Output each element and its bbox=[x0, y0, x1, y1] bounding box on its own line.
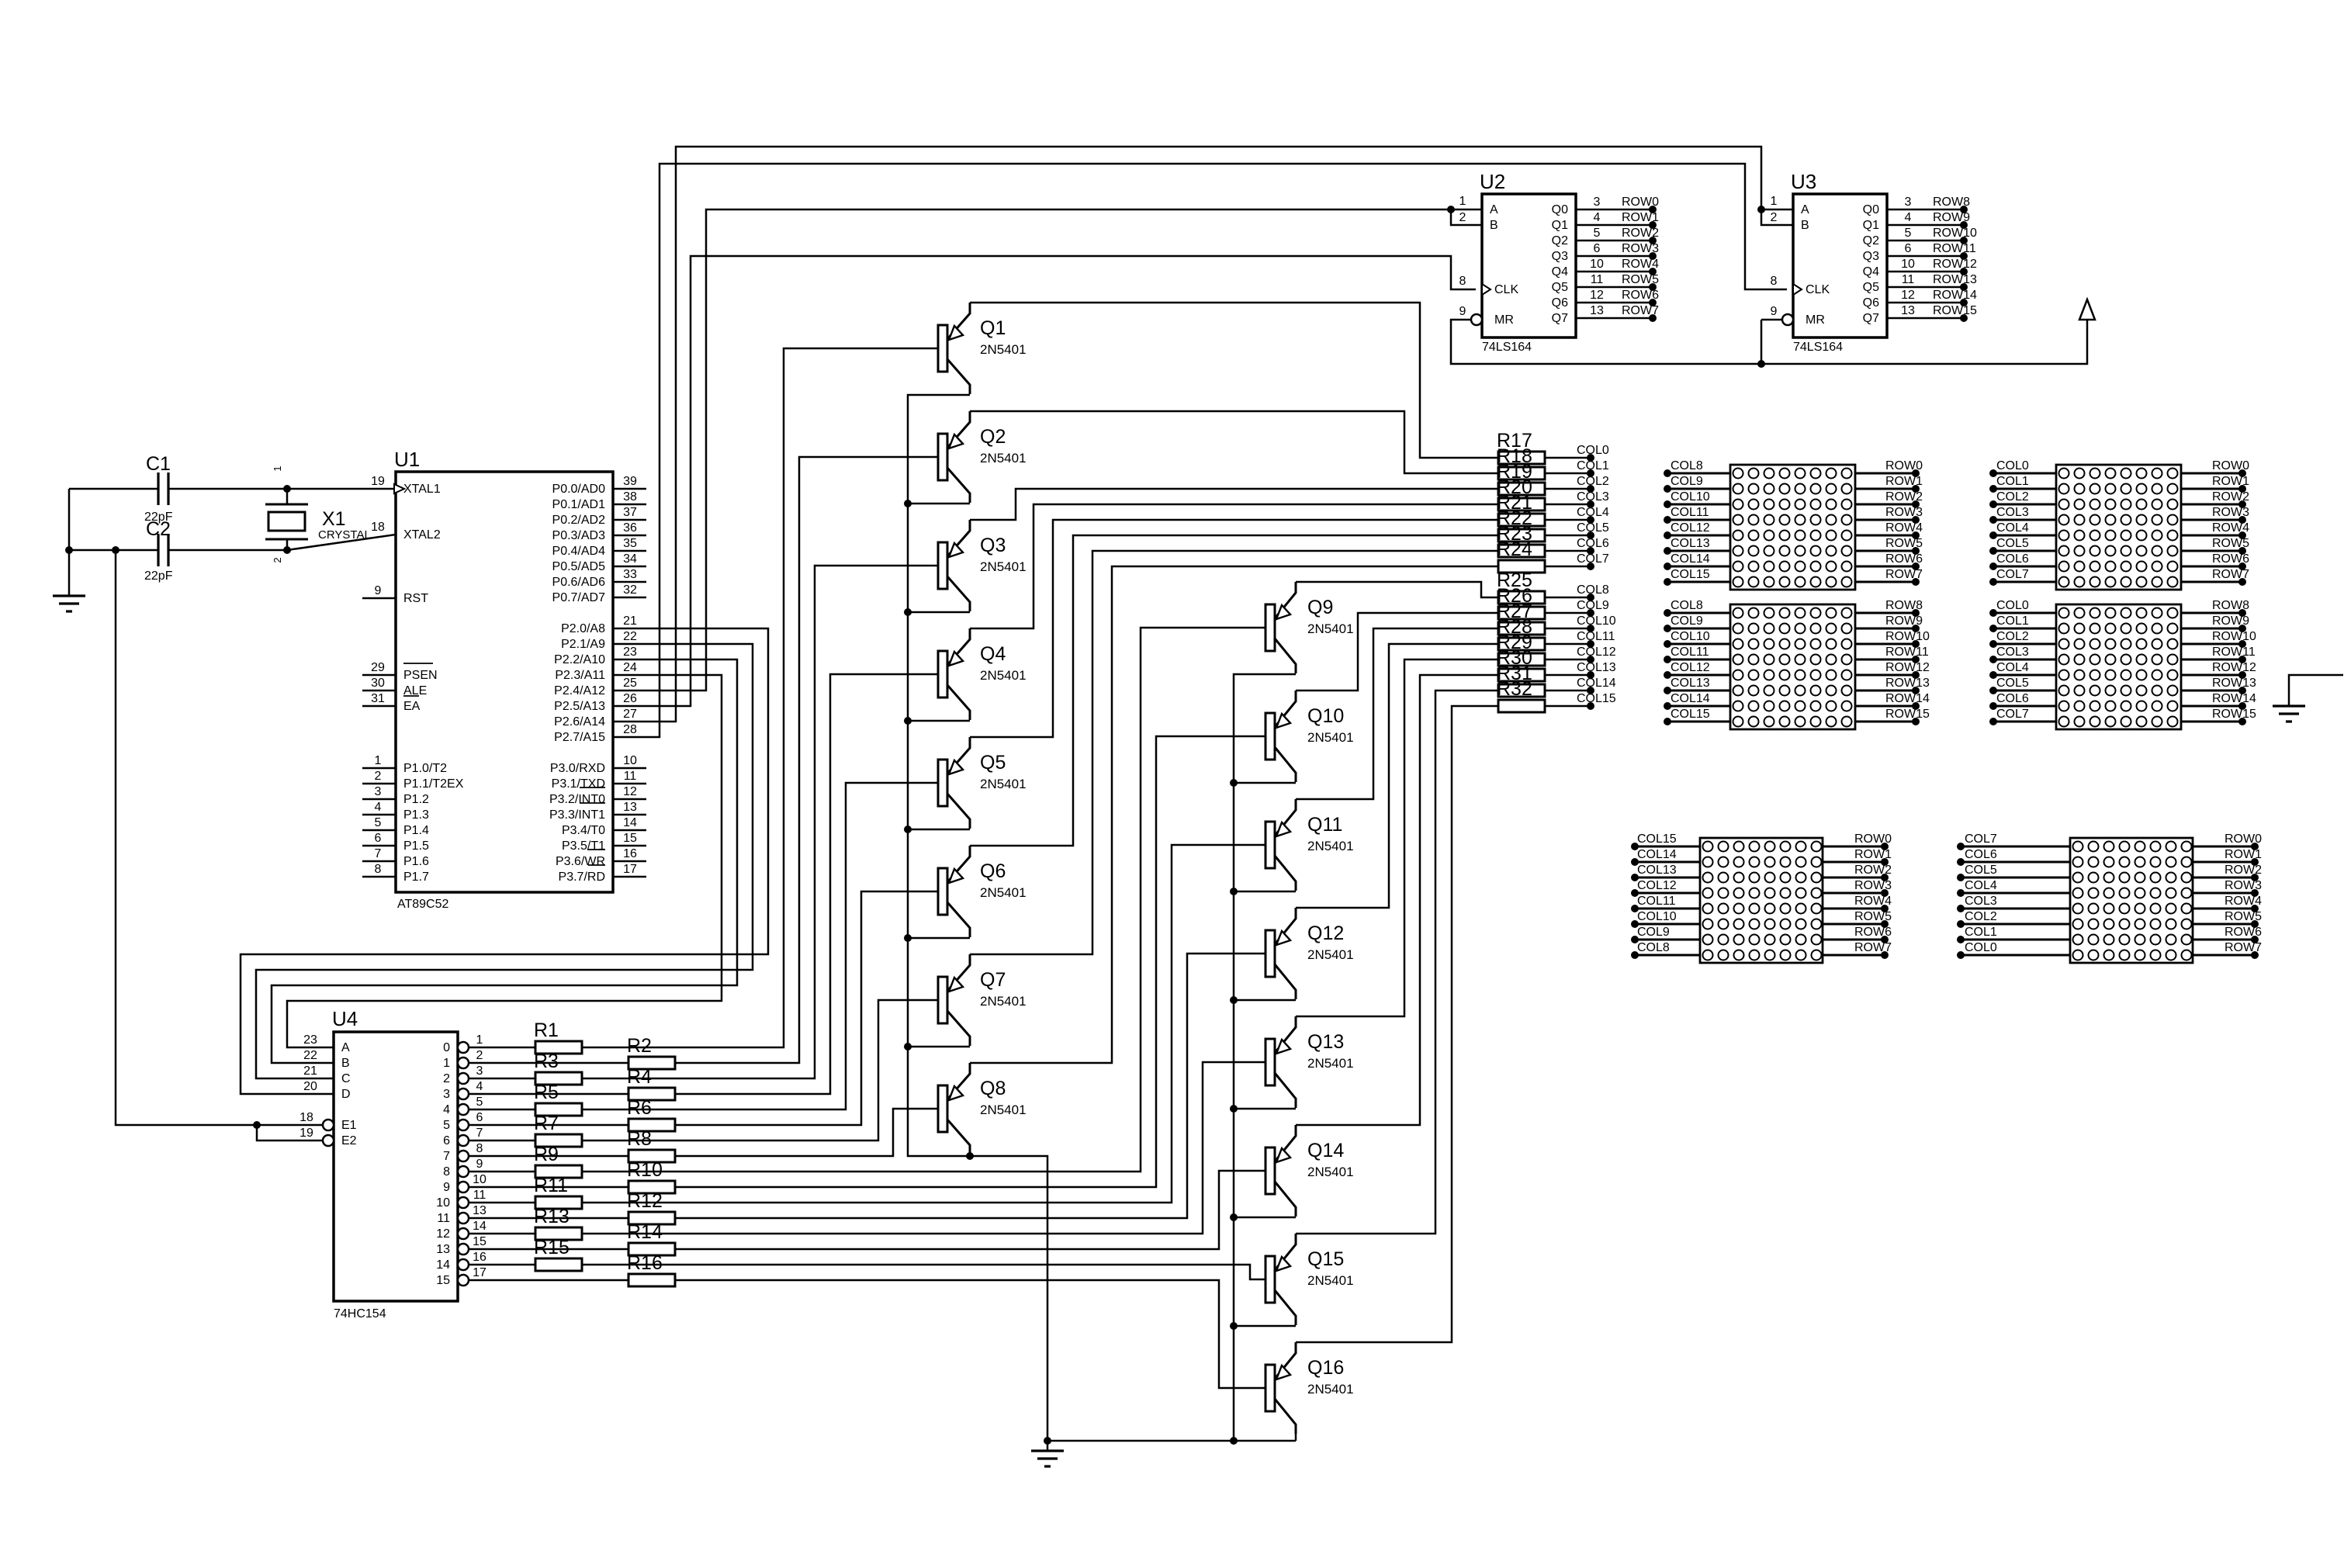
node COL0 (DZ4) bbox=[1993, 612, 2056, 614]
svg-text:U2: U2 bbox=[1480, 170, 1505, 193]
svg-text:9: 9 bbox=[375, 584, 382, 597]
transistor Q7 bbox=[938, 977, 947, 1023]
svg-text:P1.4: P1.4 bbox=[403, 824, 429, 837]
svg-text:12: 12 bbox=[436, 1227, 450, 1241]
node COL7 (DZ6) bbox=[1961, 846, 2070, 848]
wire R8 to Q8 base bbox=[675, 1109, 938, 1156]
wire R3 to Q3 base bbox=[582, 566, 938, 1078]
node ROW4 (DZ6) bbox=[2193, 908, 2255, 910]
svg-text:ROW14: ROW14 bbox=[1933, 289, 1977, 302]
svg-text:ROW13: ROW13 bbox=[1933, 273, 1977, 286]
svg-text:R13: R13 bbox=[534, 1206, 570, 1227]
svg-text:11: 11 bbox=[473, 1189, 486, 1202]
svg-text:COL4: COL4 bbox=[1965, 879, 1997, 892]
svg-text:ROW7: ROW7 bbox=[2225, 941, 2262, 954]
wire C1 to C2 left rail bbox=[68, 489, 71, 550]
svg-text:12: 12 bbox=[1590, 289, 1604, 302]
node ROW12 (DZ4) bbox=[2181, 674, 2242, 677]
svg-text:30: 30 bbox=[371, 677, 385, 690]
node COL15 (DZ5) bbox=[1635, 846, 1700, 848]
svg-text:P2.7/A15: P2.7/A15 bbox=[554, 731, 605, 744]
node COL11 bbox=[1545, 643, 1591, 646]
svg-text:37: 37 bbox=[623, 506, 637, 519]
svg-text:ROW3: ROW3 bbox=[2212, 506, 2249, 519]
pin 16 P3.6/WR (U1) bbox=[613, 860, 646, 863]
resistor R15 bbox=[535, 1258, 582, 1271]
wire Q2 emitter to R18 bbox=[970, 411, 1498, 473]
svg-text:2: 2 bbox=[443, 1072, 450, 1085]
svg-text:COL8: COL8 bbox=[1637, 941, 1670, 954]
svg-text:13: 13 bbox=[436, 1243, 450, 1256]
svg-text:R2: R2 bbox=[627, 1035, 652, 1057]
svg-text:7: 7 bbox=[375, 847, 382, 860]
svg-text:ROW6: ROW6 bbox=[1854, 926, 1892, 939]
wire R16 to Q16 base bbox=[675, 1280, 1265, 1388]
shift register U2 bbox=[1482, 194, 1576, 337]
node ROW0 (DZ1) bbox=[1855, 472, 1916, 475]
svg-text:P3.7/RD: P3.7/RD bbox=[559, 871, 605, 884]
resistor R24 bbox=[1498, 560, 1545, 573]
svg-text:ROW7: ROW7 bbox=[1885, 568, 1923, 581]
wire Q16 collector to ground bus bbox=[1295, 1434, 1297, 1441]
wire P2.6/A14 to U3 pins A,B bbox=[613, 147, 1793, 722]
svg-text:COL1: COL1 bbox=[1996, 614, 2029, 628]
pin 10 P3.0/RXD (U1) bbox=[613, 767, 646, 770]
node COL11 (DZ3) bbox=[1667, 659, 1730, 661]
wire Q4 collector to rail bbox=[908, 720, 970, 722]
svg-text:COL5: COL5 bbox=[1965, 864, 1997, 877]
svg-text:E1: E1 bbox=[341, 1119, 357, 1132]
node COL7 bbox=[1545, 566, 1591, 568]
transistor Q3 bbox=[938, 542, 947, 589]
svg-text:Q0: Q0 bbox=[1863, 203, 1879, 216]
svg-text:COL12: COL12 bbox=[1577, 646, 1616, 659]
node ROW5 (DZ1) bbox=[1855, 550, 1916, 552]
svg-text:4: 4 bbox=[476, 1080, 483, 1093]
node COL2 (DZ4) bbox=[1993, 643, 2056, 646]
pin 31 EA (U1) bbox=[362, 705, 396, 708]
svg-text:R14: R14 bbox=[627, 1221, 663, 1243]
svg-text:8: 8 bbox=[1771, 275, 1778, 288]
svg-text:MR: MR bbox=[1806, 313, 1825, 327]
svg-text:14: 14 bbox=[473, 1220, 486, 1233]
wire Q12 collector to rail bbox=[1234, 999, 1296, 1002]
node ROW13 (DZ4) bbox=[2181, 690, 2242, 692]
node ROW15 (DZ3) bbox=[1855, 721, 1916, 723]
node COL14 (DZ5) bbox=[1635, 861, 1700, 864]
svg-text:35: 35 bbox=[623, 537, 637, 550]
svg-text:ROW6: ROW6 bbox=[1885, 552, 1923, 566]
svg-text:2N5401: 2N5401 bbox=[980, 885, 1027, 900]
wire R9 to Q9 base bbox=[582, 628, 1265, 1172]
wire Q13 emitter to R29 bbox=[1296, 659, 1498, 1016]
svg-text:ROW0: ROW0 bbox=[1885, 459, 1923, 472]
svg-text:13: 13 bbox=[473, 1204, 486, 1217]
svg-text:Q5: Q5 bbox=[1863, 281, 1879, 294]
svg-text:ROW0: ROW0 bbox=[2212, 459, 2249, 472]
svg-text:COL5: COL5 bbox=[1577, 521, 1609, 535]
svg-text:COL3: COL3 bbox=[1996, 646, 2029, 659]
node ROW1 (DZ6) bbox=[2193, 861, 2255, 864]
svg-text:1: 1 bbox=[272, 466, 283, 471]
svg-text:17: 17 bbox=[623, 863, 637, 876]
decoder U4 bbox=[334, 1032, 458, 1301]
svg-text:COL6: COL6 bbox=[1965, 848, 1997, 861]
svg-text:11: 11 bbox=[437, 1212, 450, 1225]
svg-text:P0.1/AD1: P0.1/AD1 bbox=[552, 498, 606, 511]
node COL6 (DZ4) bbox=[1993, 705, 2056, 708]
svg-text:Q7: Q7 bbox=[1552, 312, 1568, 325]
resistor R11 bbox=[535, 1196, 582, 1209]
svg-text:ROW10: ROW10 bbox=[1933, 227, 1977, 240]
pin 29 PSEN (U1) bbox=[362, 674, 396, 677]
node COL6 (DZ2) bbox=[1993, 566, 2056, 568]
svg-text:5: 5 bbox=[1594, 227, 1601, 240]
svg-text:5: 5 bbox=[375, 816, 382, 829]
svg-text:8: 8 bbox=[443, 1165, 450, 1179]
svg-text:ROW4: ROW4 bbox=[2225, 895, 2262, 908]
node ROW3 (DZ2) bbox=[2181, 519, 2242, 521]
svg-text:ROW6: ROW6 bbox=[2212, 552, 2249, 566]
wire P2.4/A12 to U2 pins A,B bbox=[613, 209, 1482, 691]
svg-text:U3: U3 bbox=[1791, 170, 1816, 193]
svg-text:C: C bbox=[341, 1072, 351, 1085]
LED matrix DZ3 bbox=[1730, 604, 1855, 729]
svg-text:0: 0 bbox=[443, 1041, 450, 1054]
svg-text:ROW12: ROW12 bbox=[2212, 661, 2256, 674]
svg-text:P1.0/T2: P1.0/T2 bbox=[403, 762, 447, 775]
node ROW7 (DZ6) bbox=[2193, 954, 2255, 957]
node COL15 (DZ1) bbox=[1667, 581, 1730, 583]
node COL9 (DZ3) bbox=[1667, 628, 1730, 630]
svg-text:2: 2 bbox=[1459, 211, 1466, 224]
svg-text:R9: R9 bbox=[534, 1144, 559, 1165]
svg-text:U1: U1 bbox=[394, 448, 420, 471]
svg-text:Q12: Q12 bbox=[1307, 922, 1344, 944]
svg-text:Q8: Q8 bbox=[980, 1078, 1006, 1099]
svg-text:26: 26 bbox=[623, 692, 637, 705]
svg-text:36: 36 bbox=[623, 521, 637, 535]
svg-text:P0.6/AD6: P0.6/AD6 bbox=[552, 576, 606, 589]
node ROW6 (DZ1) bbox=[1855, 566, 1916, 568]
resistor R20 bbox=[1498, 498, 1545, 511]
svg-text:COL6: COL6 bbox=[1577, 537, 1609, 550]
svg-text:Q1: Q1 bbox=[980, 317, 1006, 339]
svg-text:2N5401: 2N5401 bbox=[1307, 1056, 1354, 1071]
svg-text:COL8: COL8 bbox=[1671, 459, 1703, 472]
svg-text:9: 9 bbox=[1459, 305, 1466, 318]
svg-text:7: 7 bbox=[443, 1150, 450, 1163]
svg-text:24: 24 bbox=[623, 661, 637, 674]
svg-text:ROW6: ROW6 bbox=[1622, 289, 1659, 302]
svg-text:2N5401: 2N5401 bbox=[1307, 1165, 1354, 1179]
node ROW5 (DZ6) bbox=[2193, 923, 2255, 926]
pin 1 P1.0/T2 (U1) bbox=[362, 767, 396, 770]
pin 32 P0.7/AD7 (U1) bbox=[613, 597, 646, 599]
svg-text:ROW4: ROW4 bbox=[1854, 895, 1892, 908]
resistor R28 bbox=[1498, 638, 1545, 650]
wire U2 MR / U3 MR to VCC bbox=[1451, 318, 2087, 364]
svg-text:COL3: COL3 bbox=[1965, 895, 1997, 908]
svg-text:8: 8 bbox=[1459, 275, 1466, 288]
svg-text:ROW9: ROW9 bbox=[1933, 211, 1970, 224]
svg-text:ROW2: ROW2 bbox=[1885, 490, 1923, 504]
svg-text:COL11: COL11 bbox=[1671, 646, 1709, 659]
svg-text:COL8: COL8 bbox=[1577, 583, 1609, 597]
wire R13 to Q13 base bbox=[582, 1062, 1265, 1234]
node Q8 collector junction bbox=[966, 1152, 974, 1160]
svg-text:ROW8: ROW8 bbox=[1885, 599, 1923, 612]
resistor R23 bbox=[1498, 545, 1545, 557]
svg-text:15: 15 bbox=[473, 1235, 486, 1248]
node ROW15 (DZ4) bbox=[2181, 721, 2242, 723]
svg-text:COL12: COL12 bbox=[1637, 879, 1677, 892]
wire R2 to Q2 base bbox=[675, 457, 938, 1063]
node ROW7 (DZ5) bbox=[1823, 954, 1885, 957]
wire Q4 emitter to R20 bbox=[970, 504, 1498, 628]
svg-text:P1.7: P1.7 bbox=[403, 871, 429, 884]
resistor R9 bbox=[535, 1165, 582, 1178]
node COL14 (DZ3) bbox=[1667, 705, 1730, 708]
node COL9 (DZ1) bbox=[1667, 488, 1730, 490]
resistor R27 bbox=[1498, 622, 1545, 635]
svg-text:AT89C52: AT89C52 bbox=[397, 898, 449, 911]
svg-text:COL3: COL3 bbox=[1577, 490, 1609, 504]
node COL6 (DZ6) bbox=[1961, 861, 2070, 864]
svg-text:2N5401: 2N5401 bbox=[1307, 730, 1354, 745]
svg-text:P0.5/AD5: P0.5/AD5 bbox=[552, 560, 606, 573]
svg-text:ROW1: ROW1 bbox=[2212, 475, 2249, 488]
node COL5 bbox=[1545, 535, 1591, 537]
node COL11 (DZ5) bbox=[1635, 908, 1700, 910]
svg-text:6: 6 bbox=[375, 832, 382, 845]
svg-text:P1.3: P1.3 bbox=[403, 808, 429, 822]
node ROW6 (DZ5) bbox=[1823, 939, 1885, 941]
wire collector rail Q1-Q8 bbox=[908, 395, 1047, 1441]
svg-text:C2: C2 bbox=[146, 518, 171, 540]
wire P2.2/A10 to U4 pin B bbox=[272, 659, 737, 1063]
svg-text:Q4: Q4 bbox=[1552, 265, 1568, 279]
svg-text:11: 11 bbox=[1902, 273, 1915, 286]
node COL15 bbox=[1545, 705, 1591, 708]
svg-text:9: 9 bbox=[1771, 305, 1778, 318]
node COL8 (DZ1) bbox=[1667, 472, 1730, 475]
transistor Q15 bbox=[1265, 1256, 1275, 1303]
svg-text:2N5401: 2N5401 bbox=[980, 994, 1027, 1009]
svg-text:Q2: Q2 bbox=[1863, 234, 1879, 247]
wire P2.7/A15 to U3 CLK bbox=[613, 164, 1787, 737]
svg-text:EA: EA bbox=[403, 700, 421, 713]
svg-text:ROW12: ROW12 bbox=[1885, 661, 1930, 674]
node COL5 (DZ4) bbox=[1993, 690, 2056, 692]
ground (display common) bbox=[2289, 675, 2343, 706]
node COL8 (DZ5) bbox=[1635, 954, 1700, 957]
svg-text:COL8: COL8 bbox=[1671, 599, 1703, 612]
wire enable net to U4 E1/E2 bbox=[116, 550, 323, 1125]
svg-text:COL2: COL2 bbox=[1965, 910, 1997, 923]
svg-text:ROW15: ROW15 bbox=[2212, 708, 2256, 721]
node COL4 bbox=[1545, 519, 1591, 521]
wire Q3 collector to rail bbox=[908, 611, 970, 614]
svg-text:ROW15: ROW15 bbox=[1933, 304, 1977, 317]
svg-text:2N5401: 2N5401 bbox=[1307, 1382, 1354, 1397]
node ROW3 (DZ1) bbox=[1855, 519, 1916, 521]
wire X1 pin2 to XTAL2 bbox=[287, 535, 396, 550]
svg-text:16: 16 bbox=[473, 1251, 486, 1264]
svg-text:COL3: COL3 bbox=[1996, 506, 2029, 519]
svg-text:Q4: Q4 bbox=[1863, 265, 1879, 279]
svg-text:P3.5/T1: P3.5/T1 bbox=[562, 839, 605, 853]
node COL12 (DZ1) bbox=[1667, 535, 1730, 537]
svg-text:3: 3 bbox=[375, 785, 382, 798]
wire R6 to Q6 base bbox=[675, 891, 938, 1125]
transistor Q1 bbox=[938, 325, 947, 372]
svg-text:ROW2: ROW2 bbox=[1854, 864, 1892, 877]
node COL13 (DZ1) bbox=[1667, 550, 1730, 552]
pin 30 ALE (U1) bbox=[362, 690, 396, 692]
svg-text:21: 21 bbox=[623, 614, 637, 628]
capacitor C1 bbox=[69, 488, 158, 490]
svg-text:B: B bbox=[1490, 219, 1498, 232]
wire Q11 emitter to R27 bbox=[1296, 628, 1498, 799]
node COL1 (DZ4) bbox=[1993, 628, 2056, 630]
node COL14 (DZ1) bbox=[1667, 566, 1730, 568]
node COL2 bbox=[1545, 488, 1591, 490]
svg-text:COL10: COL10 bbox=[1577, 614, 1616, 628]
wire P2.1/A9 to U4 pin C bbox=[256, 644, 753, 1078]
svg-text:1: 1 bbox=[476, 1033, 483, 1047]
resistor R31 bbox=[1498, 684, 1545, 697]
pin 9 RST (U1) bbox=[362, 597, 396, 600]
resistor R26 bbox=[1498, 607, 1545, 619]
resistor R7 bbox=[535, 1134, 582, 1147]
svg-text:10: 10 bbox=[1901, 258, 1915, 271]
svg-text:ROW7: ROW7 bbox=[1622, 304, 1659, 317]
wire R1 to Q1 base bbox=[582, 348, 938, 1047]
node ROW8 (DZ3) bbox=[1855, 612, 1916, 614]
svg-text:6: 6 bbox=[1594, 242, 1601, 255]
node COL6 bbox=[1545, 550, 1591, 552]
wire Q15 emitter to R31 bbox=[1296, 691, 1498, 1234]
wire Q13 collector to rail bbox=[1234, 1108, 1296, 1110]
svg-text:C1: C1 bbox=[146, 453, 171, 475]
ground (emitter rails) bbox=[1047, 1441, 1049, 1451]
svg-text:11: 11 bbox=[1591, 273, 1604, 286]
svg-text:XTAL2: XTAL2 bbox=[403, 528, 441, 542]
transistor Q12 bbox=[1265, 930, 1275, 977]
resistor R10 bbox=[628, 1181, 675, 1193]
svg-text:COL0: COL0 bbox=[1996, 459, 2029, 472]
svg-text:COL1: COL1 bbox=[1965, 926, 1997, 939]
svg-text:ROW0: ROW0 bbox=[1854, 832, 1892, 846]
svg-text:ROW5: ROW5 bbox=[1854, 910, 1892, 923]
node COL1 (DZ6) bbox=[1961, 939, 2070, 941]
svg-text:B: B bbox=[1801, 219, 1809, 232]
svg-text:25: 25 bbox=[623, 677, 637, 690]
wire Q10 emitter to R26 bbox=[1296, 613, 1498, 691]
svg-text:R10: R10 bbox=[627, 1159, 663, 1181]
svg-text:P2.0/A8: P2.0/A8 bbox=[561, 622, 605, 635]
svg-text:22pF: 22pF bbox=[144, 569, 173, 583]
svg-text:P1.1/T2EX: P1.1/T2EX bbox=[403, 777, 464, 791]
svg-text:COL0: COL0 bbox=[1577, 444, 1609, 457]
svg-text:COL7: COL7 bbox=[1996, 708, 2029, 721]
svg-text:ROW1: ROW1 bbox=[1885, 475, 1923, 488]
node COL10 (DZ3) bbox=[1667, 643, 1730, 646]
svg-text:2N5401: 2N5401 bbox=[980, 559, 1027, 574]
resistor R18 bbox=[1498, 467, 1545, 479]
svg-text:Q3: Q3 bbox=[1552, 250, 1568, 263]
svg-text:2N5401: 2N5401 bbox=[1307, 947, 1354, 962]
svg-text:15: 15 bbox=[623, 832, 637, 845]
pin 14 P3.4/T0 (U1) bbox=[613, 829, 646, 832]
svg-text:39: 39 bbox=[623, 475, 637, 488]
svg-text:7: 7 bbox=[476, 1127, 483, 1140]
svg-text:COL5: COL5 bbox=[1996, 677, 2029, 690]
wire R11 to Q11 base bbox=[582, 845, 1265, 1203]
svg-text:16: 16 bbox=[623, 847, 637, 860]
svg-text:2: 2 bbox=[1771, 211, 1778, 224]
node COL3 (DZ2) bbox=[1993, 519, 2056, 521]
wire ground bus bottom bbox=[1047, 1440, 1296, 1442]
wire R7 to Q7 base bbox=[582, 1000, 938, 1141]
node COL2 (DZ6) bbox=[1961, 923, 2070, 926]
svg-text:3: 3 bbox=[1594, 196, 1601, 209]
svg-text:ROW3: ROW3 bbox=[1854, 879, 1892, 892]
node ROW9 (DZ4) bbox=[2181, 628, 2242, 630]
node ROW13 (DZ3) bbox=[1855, 690, 1916, 692]
svg-text:3: 3 bbox=[443, 1088, 450, 1101]
svg-text:COL7: COL7 bbox=[1965, 832, 1997, 846]
svg-text:COL14: COL14 bbox=[1671, 552, 1710, 566]
svg-text:X1: X1 bbox=[322, 508, 346, 530]
wire Q6 collector to rail bbox=[908, 937, 970, 940]
transistor Q14 bbox=[1265, 1147, 1275, 1194]
node ROW12 (DZ3) bbox=[1855, 674, 1916, 677]
node COL5 (DZ2) bbox=[1993, 550, 2056, 552]
svg-text:ROW4: ROW4 bbox=[1885, 521, 1923, 535]
node ROW10 (DZ4) bbox=[2181, 643, 2242, 646]
svg-text:74HC154: 74HC154 bbox=[334, 1307, 386, 1321]
node ROW4 (DZ2) bbox=[2181, 535, 2242, 537]
svg-text:ROW7: ROW7 bbox=[1854, 941, 1892, 954]
svg-text:ROW11: ROW11 bbox=[1885, 646, 1929, 659]
node ROW8 (DZ4) bbox=[2181, 612, 2242, 614]
svg-text:COL7: COL7 bbox=[1577, 552, 1609, 566]
pin 7 P1.6 (U1) bbox=[362, 860, 396, 863]
ground (C1/C2) bbox=[68, 550, 71, 596]
node COL3 (DZ4) bbox=[1993, 659, 2056, 661]
svg-text:27: 27 bbox=[623, 708, 637, 721]
svg-text:ROW14: ROW14 bbox=[1885, 692, 1930, 705]
svg-text:ROW0: ROW0 bbox=[2225, 832, 2262, 846]
pin 11 P3.1/TXD (U1) bbox=[613, 783, 646, 785]
node ROW14 (DZ3) bbox=[1855, 705, 1916, 708]
node COL14 bbox=[1545, 690, 1591, 692]
svg-text:2: 2 bbox=[476, 1049, 483, 1062]
svg-text:ROW11: ROW11 bbox=[1933, 242, 1976, 255]
svg-text:ROW2: ROW2 bbox=[2225, 864, 2262, 877]
svg-text:ROW4: ROW4 bbox=[2212, 521, 2249, 535]
node COL12 (DZ5) bbox=[1635, 892, 1700, 895]
svg-text:9: 9 bbox=[443, 1181, 450, 1194]
svg-text:P1.5: P1.5 bbox=[403, 839, 429, 853]
svg-text:B: B bbox=[341, 1057, 350, 1070]
svg-text:E2: E2 bbox=[341, 1134, 357, 1147]
wire R15 to Q15 base bbox=[582, 1265, 1265, 1279]
wire Q5 collector to rail bbox=[908, 829, 970, 831]
svg-text:Q0: Q0 bbox=[1552, 203, 1568, 216]
